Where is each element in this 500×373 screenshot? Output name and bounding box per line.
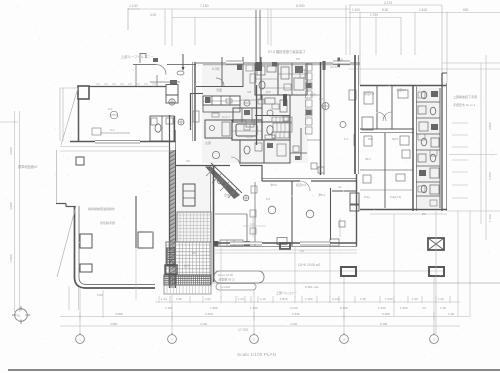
- dark grating band: [164, 275, 211, 285]
- bottom tick x170: [169, 296, 171, 303]
- center rooms door arcs: [300, 181, 310, 191]
- ticks above north wall: [96, 83, 100, 85]
- dimension line top-right upper: [349, 4, 442, 6]
- small box y58: [153, 58, 158, 62]
- bottom tick x317: [316, 296, 318, 303]
- dimension line top-right row: [349, 12, 500, 14]
- right balcony line y214: [370, 213, 447, 215]
- bottom tick x339: [338, 296, 340, 303]
- door gap east wall: [354, 134, 357, 146]
- bottom tick x436: [435, 296, 437, 303]
- top wall joint x339: [338, 58, 341, 68]
- box east of wall: [362, 117, 373, 130]
- right block line y190: [360, 189, 413, 191]
- svg-text:洋室6.2: 洋室6.2: [396, 87, 407, 92]
- svg-text:3.000: 3.000: [9, 147, 13, 155]
- right margin extension x481: [480, 63, 482, 224]
- extension x470 lower: [469, 211, 471, 316]
- extension x394 lower: [393, 214, 395, 316]
- right block south wall: [360, 209, 447, 211]
- grid bubble 5: [430, 335, 439, 344]
- room label circle 2: [306, 210, 314, 218]
- room divider x292: [291, 181, 293, 246]
- wall box x349: [349, 90, 356, 100]
- bottom tick x273: [272, 296, 274, 303]
- svg-text:17.700: 17.700: [238, 328, 248, 332]
- fixture column border: [439, 88, 441, 208]
- corridor wall x320: [320, 62, 322, 175]
- svg-text:4.02: 4.02: [205, 297, 211, 301]
- WC cluster box: [150, 116, 174, 141]
- bottom tick x450: [449, 296, 451, 303]
- svg-text:1.99: 1.99: [176, 297, 182, 301]
- svg-text:物干: 物干: [184, 263, 190, 268]
- svg-text:和室6.0: 和室6.0: [296, 182, 307, 187]
- svg-text:2.0: 2.0: [422, 306, 427, 310]
- wash center cluster: [202, 63, 308, 163]
- east wall lower x356.5: [356, 174, 358, 246]
- bottom tick x330: [329, 296, 331, 303]
- extension line x376: [375, 17, 377, 55]
- boundary diagonal lower: [57, 206, 76, 277]
- svg-text:手摺笠木 FL+1.1: 手摺笠木 FL+1.1: [453, 102, 476, 107]
- door arc bedroom: [216, 78, 224, 86]
- room center line x253: [252, 215, 254, 237]
- sheet border bottom line: [8, 369, 500, 371]
- svg-text:6.0帖: 6.0帖: [212, 66, 220, 71]
- svg-text:N8.5: N8.5: [392, 137, 399, 141]
- right block wall x413: [412, 85, 414, 211]
- inner dim line: [243, 225, 266, 227]
- extension x221 lower: [220, 246, 222, 298]
- svg-text:1.030: 1.030: [385, 297, 393, 301]
- bottom tick line y302: [155, 301, 460, 303]
- entry label circle: [212, 151, 219, 158]
- core wall upper extension: [169, 115, 171, 150]
- top wall joint x256: [256, 62, 263, 71]
- svg-text:N7.5 階段室廻り最高高さ: N7.5 階段室廻り最高高さ: [268, 49, 306, 54]
- living room label circle: [322, 103, 329, 110]
- extension x330 lower: [329, 247, 331, 298]
- balcony line y271: [215, 270, 445, 272]
- grid bubble 3: [250, 335, 259, 344]
- flower symbol 1: [169, 99, 175, 105]
- svg-text:玄関: 玄関: [205, 140, 211, 145]
- J wall curve: [75, 278, 86, 288]
- right block mid wall y170: [360, 169, 413, 171]
- extension line x447: [446, 12, 448, 83]
- level mark circle: [15, 309, 28, 322]
- south wall double y243: [215, 242, 357, 244]
- window lines top wall: [226, 61, 243, 63]
- WC divider: [161, 116, 163, 141]
- svg-text:3.200: 3.200: [488, 172, 492, 180]
- room label circle left room: [110, 111, 118, 119]
- cluster rect 246: [246, 120, 254, 127]
- svg-text:PS: PS: [422, 212, 426, 216]
- laundry deck light grid: [166, 242, 211, 275]
- cluster marks x29x: [293, 146, 299, 152]
- bottom tick x221: [220, 296, 222, 303]
- svg-text:2.800: 2.800: [488, 122, 492, 130]
- wall upper y82: [150, 81, 180, 83]
- kitchen sink dark: [205, 97, 211, 103]
- right margin line y63: [442, 62, 500, 64]
- right margin line y154: [449, 154, 497, 156]
- core east wall x213: [213, 166, 215, 282]
- porch hatch square: [177, 212, 211, 242]
- svg-text:PS: PS: [296, 57, 300, 61]
- upper wall tick x136: [135, 65, 137, 86]
- bottom tick x295: [294, 296, 296, 303]
- svg-text:1.28: 1.28: [448, 312, 454, 316]
- right block divider x392: [391, 86, 393, 129]
- svg-text:CL: CL: [338, 185, 342, 189]
- unit room D toilet: [262, 122, 290, 140]
- extension x458 lower: [457, 211, 459, 316]
- bottom tick x190: [189, 296, 191, 303]
- cluster wall y115: [255, 115, 290, 117]
- svg-text:5.30: 5.30: [382, 8, 388, 12]
- extension line x271: [270, 9, 272, 46]
- right extension x436: [435, 211, 437, 334]
- extension line x172: [171, 9, 173, 46]
- wash kitchen block: [203, 95, 263, 140]
- svg-text:1616: 1616: [246, 135, 253, 139]
- svg-text:上部ルーフバルコニー: 上部ルーフバルコニー: [121, 54, 154, 59]
- fixture box 5: [419, 170, 426, 176]
- left room interior marks: [92, 128, 101, 135]
- left margin extension line x14.5: [14, 111, 16, 312]
- svg-text:UP: UP: [186, 159, 190, 163]
- svg-text:7.150: 7.150: [200, 4, 209, 8]
- fixture divider y182: [416, 181, 440, 183]
- J wall vertical double: [74, 206, 76, 278]
- svg-text:1.44: 1.44: [161, 297, 167, 301]
- svg-text:洋5.1: 洋5.1: [318, 192, 326, 197]
- svg-text:3.200: 3.200: [9, 202, 13, 210]
- fixture divider y150: [416, 149, 440, 151]
- small rect right of wall190: [193, 111, 199, 122]
- svg-text:洗面: 洗面: [216, 87, 222, 92]
- bottom tick x355: [354, 296, 356, 303]
- wash right fixture column: [416, 88, 440, 208]
- svg-text:1.95: 1.95: [412, 297, 418, 301]
- svg-text:UB: UB: [247, 90, 251, 94]
- corridor south wall y165: [176, 165, 230, 167]
- wall left room north: [89, 86, 166, 88]
- wall left room west: [78, 99, 80, 142]
- svg-text:GL: GL: [17, 314, 21, 318]
- room divider x330: [330, 188, 332, 240]
- svg-text:Scale 1/100 PLAN: Scale 1/100 PLAN: [237, 352, 277, 358]
- small box near top wall: [170, 80, 177, 85]
- svg-text:4.00: 4.00: [150, 13, 156, 17]
- svg-text:4.550: 4.550: [115, 312, 123, 316]
- wall boxes washitsu: [277, 238, 287, 245]
- center block east wall: [354, 55, 356, 174]
- lower cluster room row west: [240, 140, 264, 163]
- right block east wall: [441, 73, 443, 211]
- diagonal cross ticks: [206, 168, 214, 176]
- boundary diagonal upper: [61, 88, 78, 145]
- bottom tick x422: [421, 296, 423, 303]
- svg-text:廊下: 廊下: [310, 92, 316, 97]
- extension line x360: [359, 12, 361, 85]
- svg-text:4.100: 4.100: [205, 312, 213, 316]
- extension line x195: [194, 17, 196, 45]
- right block corridor wall: [360, 128, 414, 130]
- lower cluster room row east: [264, 140, 290, 163]
- bottom tick x408: [407, 296, 409, 303]
- wash entrance core: [176, 166, 212, 242]
- bottom tick x258: [257, 296, 259, 303]
- left edge extension x69: [68, 286, 70, 310]
- wall x190 vertical: [190, 93, 192, 130]
- svg-text:1.815: 1.815: [280, 297, 288, 301]
- svg-text:6.1: 6.1: [344, 137, 349, 141]
- svg-text:1.45: 1.45: [360, 297, 366, 301]
- open corridor dashes: [452, 122, 468, 124]
- wall x136 lower-left: [135, 196, 137, 248]
- right block door arcs: [377, 112, 386, 121]
- svg-text:Poly(1.5): Poly(1.5): [390, 195, 401, 199]
- upper wall door arc: [156, 65, 166, 75]
- wall stub x157: [156, 75, 158, 86]
- grid bubble 4: [340, 335, 349, 344]
- planting ellipse: [177, 71, 184, 75]
- svg-text:1.180: 1.180: [305, 297, 313, 301]
- bottom tick x394: [393, 296, 395, 303]
- dimension line top row 2: [172, 17, 401, 19]
- bottom main tick x172: [171, 312, 173, 321]
- svg-text:4.130: 4.130: [290, 306, 298, 310]
- bottom tick x380: [379, 296, 381, 303]
- hall small marks: [311, 163, 317, 169]
- kitchen counter row: [203, 96, 240, 105]
- entry arrow: [182, 54, 184, 68]
- svg-text:上部バルコニー: 上部バルコニー: [276, 290, 297, 295]
- kitchen lower row: [203, 105, 240, 112]
- svg-text:基準地盤面±0: 基準地盤面±0: [18, 164, 38, 169]
- stair landing box: [165, 265, 177, 274]
- diagonal hatch band: [205, 167, 240, 200]
- hall knob circle 2: [243, 195, 249, 201]
- fixture on south wall: [330, 239, 339, 246]
- right block lower divider: [384, 133, 386, 208]
- extension line x268: [267, 9, 269, 45]
- svg-text:6 m: 6 m: [110, 128, 116, 132]
- cabinet on south wall: [220, 240, 243, 246]
- WC fixture box: [166, 118, 173, 124]
- svg-text:1.8: 1.8: [250, 222, 254, 226]
- svg-text:6.00: 6.00: [97, 293, 103, 297]
- hall wall y214: [215, 213, 247, 215]
- scan speckles: [163, 58, 166, 61]
- extension line x350: [349, 5, 351, 55]
- svg-text:4.100: 4.100: [200, 322, 208, 326]
- top-right dim line y69: [349, 68, 500, 70]
- entrance east wall x262: [261, 165, 263, 181]
- top wall main: [196, 62, 360, 64]
- svg-text:(床面積 68.2): (床面積 68.2): [218, 278, 235, 282]
- flower symbol 2: [178, 119, 184, 125]
- cluster wall x301: [300, 128, 302, 160]
- entrance hall divider x247: [246, 214, 248, 246]
- J wall bottom double: [85, 287, 155, 289]
- bottom tick x245: [244, 296, 246, 303]
- dimension corner top-left: [127, 8, 129, 30]
- west wall of center block: [194, 62, 196, 141]
- svg-text:2.275: 2.275: [384, 1, 392, 5]
- entrance shoe cabinet: [183, 184, 195, 206]
- svg-text:4.130: 4.130: [332, 297, 340, 301]
- left margin line y122: [0, 121, 18, 123]
- svg-text:1.030: 1.030: [378, 306, 386, 310]
- svg-text:6.0: 6.0: [108, 107, 113, 111]
- extension x136 lower: [135, 248, 137, 300]
- svg-text:1.24: 1.24: [238, 297, 244, 301]
- room divider x222: [221, 57, 223, 87]
- fixture divider y166: [416, 165, 440, 167]
- svg-text:上部解放廊下手摺: 上部解放廊下手摺: [453, 94, 477, 99]
- svg-text:6.900: 6.900: [296, 4, 305, 8]
- balcony rail west: [59, 88, 61, 141]
- svg-text:玄関: 玄関: [224, 192, 230, 197]
- extension x103 lower: [102, 290, 104, 318]
- grid extension line x434: [433, 277, 435, 334]
- grid extension line x254: [253, 289, 255, 334]
- bottom tick x236: [235, 296, 237, 303]
- extension line x442: [441, 5, 443, 73]
- unit room C: [262, 95, 290, 122]
- svg-text:1.100: 1.100: [352, 8, 360, 12]
- left edge line upper: [56, 150, 58, 204]
- svg-text:1.485: 1.485: [165, 306, 173, 310]
- WC fixture toilet: [155, 124, 161, 132]
- small room A north: [166, 85, 178, 96]
- svg-text:1.100: 1.100: [129, 4, 138, 8]
- column small y243: [280, 243, 290, 249]
- right margin extension x486: [485, 55, 487, 240]
- grid extension line x172: [171, 295, 173, 334]
- left edge extension x78.5: [78, 286, 80, 310]
- upper wall y64 left segment: [133, 64, 156, 66]
- top wall joint x324: [323, 61, 326, 70]
- core west hatched wall: [169, 150, 176, 288]
- room label circle washitsu: [268, 206, 276, 214]
- right margin line y211: [447, 210, 500, 212]
- svg-text:DN: DN: [192, 251, 196, 255]
- extension line x165: [164, 9, 166, 45]
- svg-text:N8.1: N8.1: [365, 157, 371, 161]
- room divider x261: [260, 57, 262, 100]
- staple mark top: [140, 54, 146, 64]
- svg-text:5.180: 5.180: [380, 322, 388, 326]
- fixture divider y196: [416, 195, 440, 197]
- svg-text:2.0: 2.0: [300, 249, 305, 253]
- balcony rail lower center y250: [215, 249, 357, 251]
- step rect lower-left: [138, 232, 153, 248]
- duct strip cells: [306, 64, 313, 71]
- window lines south wall: [230, 242, 262, 244]
- fixture divider y102: [416, 101, 440, 103]
- bottom main tick x80: [79, 312, 81, 321]
- extension x295 lower: [294, 247, 296, 298]
- svg-text:Poly: Poly: [364, 195, 370, 199]
- svg-text:LD+K 15.05: LD+K 15.05: [218, 273, 233, 277]
- dim mark 6m living: [100, 132, 130, 134]
- svg-text:600: 600: [463, 8, 469, 12]
- diagonal wall line: [211, 163, 242, 193]
- svg-text:2.15: 2.15: [260, 297, 266, 301]
- column x341: [341, 267, 356, 276]
- left room window: [95, 140, 140, 142]
- duct slot dark: [283, 94, 287, 106]
- note box rounded 1: [214, 271, 264, 283]
- column x429: [429, 267, 444, 276]
- wall y86 center rooms: [196, 86, 243, 88]
- svg-text:F.460 +GL: F.460 +GL: [305, 285, 319, 289]
- fixture sink 2: [418, 106, 426, 114]
- cluster circle 247: [244, 100, 250, 106]
- note box rounded 2: [216, 284, 256, 291]
- wall y93 horizontal: [190, 93, 203, 95]
- grid bubble 2: [168, 335, 177, 344]
- svg-text:1.100: 1.100: [488, 214, 492, 222]
- svg-text:横斜線制限適用除外: 横斜線制限適用除外: [88, 206, 115, 211]
- bottom sub dimension line y326: [60, 325, 460, 327]
- corner step west: [56, 203, 66, 205]
- svg-text:4.130: 4.130: [292, 312, 300, 316]
- svg-text:K=2.7: K=2.7: [222, 115, 230, 119]
- closet small box: [339, 221, 345, 227]
- right block fixture extra: [418, 92, 425, 98]
- bathtub: [236, 124, 257, 136]
- top wall joint x237: [237, 63, 242, 70]
- right block north wall: [360, 85, 447, 87]
- upper cluster tiny lines: [255, 78, 278, 80]
- extension line x401: [400, 17, 402, 55]
- svg-text:2.800: 2.800: [9, 254, 13, 262]
- svg-text:見切線手摺: 見切線手摺: [100, 220, 115, 225]
- bottom main tick x254: [253, 312, 255, 321]
- fixture toilet 3: [421, 138, 427, 146]
- fixture box 3: [419, 122, 428, 131]
- bottom tick x203: [202, 296, 204, 303]
- small room B: [166, 95, 178, 103]
- living symbol circle 2: [340, 122, 346, 128]
- extension line x346: [345, 5, 347, 55]
- left margin extension line x19.5: [19, 111, 21, 312]
- appliance boxes: [233, 108, 262, 122]
- bathroom unit: [232, 120, 262, 140]
- grid extension line x344: [343, 277, 345, 334]
- right block divider x377: [376, 86, 378, 129]
- balcony rail lower center y253: [215, 252, 357, 254]
- fixture toilet 1: [421, 91, 427, 99]
- utility band: [205, 120, 232, 138]
- svg-text:WC: WC: [266, 90, 272, 94]
- svg-text:6.0: 6.0: [266, 197, 271, 201]
- extension line x415: [414, 12, 416, 55]
- small box left wing: [76, 157, 84, 165]
- upper cluster east room: [278, 63, 307, 95]
- svg-text:洋6.0: 洋6.0: [270, 182, 278, 187]
- closet top wall y191: [332, 190, 357, 192]
- wall y181 center-right: [262, 180, 300, 182]
- svg-text:4.550: 4.550: [110, 322, 118, 326]
